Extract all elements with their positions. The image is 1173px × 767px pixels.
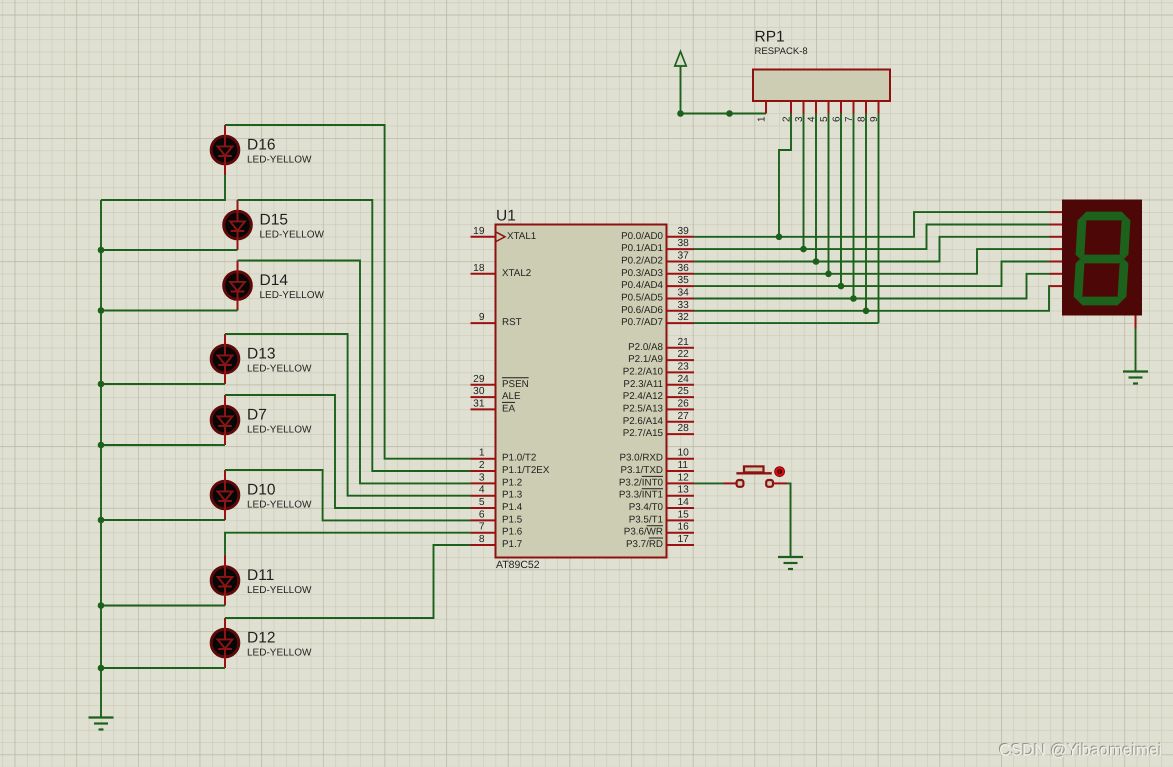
svg-text:P3.1/TXD: P3.1/TXD <box>621 465 663 476</box>
display pin 5 <box>1050 261 1063 263</box>
wire RP1 pin 7 to node P0.5 <box>853 114 855 299</box>
svg-text:XTAL2: XTAL2 <box>502 268 531 279</box>
svg-text:26: 26 <box>678 398 690 409</box>
U1 pin 17 (P3.7/RD) <box>667 544 695 546</box>
svg-text:D13: D13 <box>247 346 275 363</box>
junction RP1 pin2/P0.0 <box>776 234 783 241</box>
svg-text:D10: D10 <box>247 482 276 499</box>
svg-text:15: 15 <box>678 509 690 520</box>
U1 pin 16 (P3.6/WR) <box>667 532 695 534</box>
junction D12/bus <box>98 665 105 672</box>
svg-text:25: 25 <box>678 386 690 397</box>
svg-text:P2.4/A12: P2.4/A12 <box>623 391 663 402</box>
svg-text:39: 39 <box>678 226 690 237</box>
U1 pin 7 (P1.6) <box>471 532 496 534</box>
junction D13/bus <box>98 381 105 388</box>
svg-text:P1.1/T2EX: P1.1/T2EX <box>502 465 550 476</box>
display segment E <box>1074 259 1085 301</box>
svg-text:P1.2: P1.2 <box>502 477 522 488</box>
junction D7/bus <box>98 442 105 449</box>
svg-text:P0.3/AD3: P0.3/AD3 <box>621 268 663 279</box>
junction RP1 pin8/P0.6 <box>863 308 870 315</box>
wire D12 cathode to bus <box>101 667 225 669</box>
svg-text:24: 24 <box>678 374 690 385</box>
wire D16 cathode to bus <box>101 175 225 200</box>
display pin 2 <box>1050 224 1063 226</box>
junction RP1 pin4/P0.2 <box>813 258 820 265</box>
wire RP1 pin 8 to node P0.6 <box>865 114 867 311</box>
svg-text:34: 34 <box>678 288 690 299</box>
svg-text:13: 13 <box>678 485 690 496</box>
button actuator (red) <box>775 467 785 477</box>
U1 pin 26 (P2.5/A13) <box>667 408 695 410</box>
svg-text:PSEN: PSEN <box>502 379 529 390</box>
U1 pin 35 (P0.4/AD4) <box>667 285 695 287</box>
svg-text:LED-YELLOW: LED-YELLOW <box>247 364 312 375</box>
display segment B <box>1120 216 1131 259</box>
U1 pin 18 (XTAL2) <box>471 273 496 275</box>
wire D13 anode to P1.3 <box>225 334 471 496</box>
LED D15 (LED-YELLOW) <box>224 200 252 250</box>
wire D10 cathode to bus <box>101 519 225 521</box>
svg-text:LED-YELLOW: LED-YELLOW <box>260 290 325 301</box>
display pin 7 <box>1050 285 1063 287</box>
LED D10 (LED-YELLOW) <box>211 470 239 520</box>
svg-text:1: 1 <box>757 116 768 122</box>
U1 pin 27 (P2.6/A14) <box>667 421 695 423</box>
svg-text:P3.6/WR: P3.6/WR <box>624 527 663 538</box>
U1 pin 22 (P2.1/A9) <box>667 359 695 361</box>
U1 pin 21 (P2.0/A8) <box>667 347 695 349</box>
svg-text:P1.0/T2: P1.0/T2 <box>502 453 536 464</box>
svg-text:9: 9 <box>479 312 485 323</box>
svg-text:P2.7/A15: P2.7/A15 <box>623 428 664 439</box>
U1 pin 15 (P3.5/T1) <box>667 519 695 521</box>
svg-text:10: 10 <box>678 448 690 459</box>
svg-text:32: 32 <box>678 312 690 323</box>
svg-text:P3.3/INT1: P3.3/INT1 <box>619 490 663 501</box>
svg-text:P3.0/RXD: P3.0/RXD <box>619 453 663 464</box>
U1 pin 34 (P0.5/AD5) <box>667 298 695 300</box>
svg-text:CSDN @Yibaomeimei: CSDN @Yibaomeimei <box>999 742 1162 760</box>
wire D14 anode to P1.2 <box>238 261 471 484</box>
op: IC U1 AT89C52 body <box>496 225 667 558</box>
LED D13 (LED-YELLOW) <box>211 334 239 384</box>
svg-text:LED-YELLOW: LED-YELLOW <box>247 585 312 596</box>
U1 pin 9 (RST) <box>471 322 496 324</box>
wire P0.1 to display pin 2 <box>694 225 1050 250</box>
U1 pin 30 (ALE) <box>471 396 496 398</box>
svg-text:P2.0/A8: P2.0/A8 <box>628 342 663 353</box>
wire RP1 pin 6 to node P0.4 <box>840 114 842 287</box>
display pin 6 <box>1050 273 1063 275</box>
svg-text:EA: EA <box>502 403 516 414</box>
U1 pin 11 (P3.1/TXD) <box>667 470 695 472</box>
U1 pin 6 (P1.5) <box>471 519 496 521</box>
U1 pin 28 (P2.7/A15) <box>667 433 695 435</box>
U1 pin 24 (P2.3/A11) <box>667 384 695 386</box>
RP1 pin 4 <box>815 101 817 114</box>
RP1 pin 1 <box>765 101 767 114</box>
svg-text:P0.1/AD1: P0.1/AD1 <box>621 243 663 254</box>
display segment G <box>1080 255 1124 264</box>
U1 pin 1 (P1.0/T2) <box>471 458 496 460</box>
svg-text:P1.7: P1.7 <box>502 539 522 550</box>
U1 pin 36 (P0.3/AD3) <box>667 273 695 275</box>
svg-text:18: 18 <box>473 263 485 274</box>
svg-text:6: 6 <box>479 509 485 520</box>
U1 pin 29 (PSEN) <box>471 384 496 386</box>
wire P0.3 to display pin 4 <box>694 249 1050 274</box>
power symbol VCC (arrow) <box>675 52 686 67</box>
wire P0.4 to display pin 5 <box>694 262 1050 287</box>
wire P3.2 to button <box>694 482 724 484</box>
svg-text:D12: D12 <box>247 630 275 647</box>
svg-text:LED-YELLOW: LED-YELLOW <box>247 500 312 511</box>
junction RP1 pin5/P0.3 <box>825 271 832 278</box>
LED D12 (LED-YELLOW) <box>211 618 239 668</box>
junction on VCC wire 2 <box>726 110 733 117</box>
svg-text:LED-YELLOW: LED-YELLOW <box>247 648 312 659</box>
push button terminals and cap <box>724 482 738 484</box>
wire D7 anode to P1.4 <box>225 395 471 508</box>
svg-text:P0.6/AD6: P0.6/AD6 <box>621 305 663 316</box>
U1 pin 31 (EA) <box>471 408 496 410</box>
svg-text:RST: RST <box>502 317 522 328</box>
svg-text:P2.6/A14: P2.6/A14 <box>623 416 664 427</box>
U1 pin 37 (P0.2/AD2) <box>667 261 695 263</box>
svg-text:D11: D11 <box>247 567 274 584</box>
svg-text:2: 2 <box>479 460 485 471</box>
wire P0.5 to display pin 6 <box>694 274 1050 299</box>
svg-text:5: 5 <box>479 497 485 508</box>
svg-text:28: 28 <box>678 423 690 434</box>
RP1 pin 6 <box>840 101 842 114</box>
svg-text:RP1: RP1 <box>755 29 785 46</box>
junction D10/bus <box>98 517 105 524</box>
svg-text:29: 29 <box>473 374 485 385</box>
svg-text:38: 38 <box>678 238 690 249</box>
wire display common to ground <box>1135 329 1137 372</box>
RP1 pin 3 <box>803 101 805 114</box>
svg-text:P2.5/A13: P2.5/A13 <box>623 403 664 414</box>
svg-text:P3.4/T0: P3.4/T0 <box>629 502 664 513</box>
svg-text:33: 33 <box>678 300 690 311</box>
svg-text:P3.2/INT0: P3.2/INT0 <box>619 477 664 488</box>
wire D13 cathode to bus <box>101 383 225 385</box>
wire D11 anode to P1.6 <box>225 533 471 556</box>
svg-text:AT89C52: AT89C52 <box>496 559 540 571</box>
svg-text:LED-YELLOW: LED-YELLOW <box>247 425 312 436</box>
svg-text:P1.6: P1.6 <box>502 527 523 538</box>
U1 pin 12 (P3.2/INT0) <box>667 482 695 484</box>
svg-text:RESPACK-8: RESPACK-8 <box>755 46 808 57</box>
LED D14 (LED-YELLOW) <box>224 261 252 311</box>
junction D15/bus <box>98 247 105 254</box>
wire D11 cathode to bus <box>101 605 225 607</box>
wire D15 anode to P1.1 <box>238 200 471 471</box>
svg-text:P1.5: P1.5 <box>502 514 523 525</box>
svg-text:16: 16 <box>678 522 690 533</box>
wire RP1 pin 4 to node P0.2 <box>815 114 817 262</box>
svg-text:8: 8 <box>479 534 485 545</box>
resistor pack RP1 body <box>753 70 890 102</box>
LED D11 (LED-YELLOW) <box>211 556 239 606</box>
svg-text:27: 27 <box>678 411 690 422</box>
svg-text:17: 17 <box>678 534 690 545</box>
display segment F <box>1076 216 1087 259</box>
wire RP1 pin 3 to node P0.1 <box>803 114 805 250</box>
7-segment display body <box>1062 200 1142 316</box>
wire cathode bus to ground <box>100 200 102 718</box>
wire P0.6 to display pin 7 <box>694 286 1050 311</box>
svg-text:12: 12 <box>678 472 690 483</box>
display pin 3 <box>1050 236 1063 238</box>
svg-text:P0.0/AD0: P0.0/AD0 <box>621 231 663 242</box>
svg-text:3: 3 <box>479 472 485 483</box>
wire D16 anode to P1.0 <box>225 125 471 459</box>
svg-text:36: 36 <box>678 263 690 274</box>
display common pin <box>1135 316 1137 329</box>
svg-text:23: 23 <box>678 361 690 372</box>
svg-text:P2.2/A10: P2.2/A10 <box>623 366 664 377</box>
RP1 pin 8 <box>865 101 867 114</box>
wire D10 anode to P1.5 <box>225 470 471 520</box>
junction D14/bus <box>98 307 105 314</box>
U1 pin 33 (P0.6/AD6) <box>667 310 695 312</box>
U1 pin 2 (P1.1/T2EX) <box>471 470 496 472</box>
wire P0.2 to display pin 3 <box>694 237 1050 262</box>
junction RP1 pin3/P0.1 <box>800 246 807 253</box>
svg-text:P1.4: P1.4 <box>502 502 523 513</box>
svg-text:LED-YELLOW: LED-YELLOW <box>260 230 325 241</box>
junction D11/bus <box>98 602 105 609</box>
svg-text:U1: U1 <box>496 208 516 225</box>
wire RP1 pin 2 to node P0.0 <box>779 114 791 237</box>
svg-text:P3.5/T1: P3.5/T1 <box>629 514 663 525</box>
svg-text:D14: D14 <box>260 272 289 289</box>
svg-text:21: 21 <box>678 337 690 348</box>
svg-text:P2.3/A11: P2.3/A11 <box>623 379 663 390</box>
RP1 pin 7 <box>853 101 855 114</box>
svg-text:D7: D7 <box>247 407 267 424</box>
svg-text:D15: D15 <box>260 212 288 229</box>
svg-text:19: 19 <box>473 226 485 237</box>
wire D14 cathode to bus <box>101 310 238 312</box>
svg-text:P0.5/AD5: P0.5/AD5 <box>621 293 663 304</box>
U1 pin 14 (P3.4/T0) <box>667 507 695 509</box>
U1 pin 10 (P3.0/RXD) <box>667 458 695 460</box>
svg-text:22: 22 <box>678 349 690 360</box>
wire button to ground <box>787 483 791 557</box>
U1 pin 5 (P1.4) <box>471 507 496 509</box>
RP1 pin 9 <box>878 101 880 114</box>
svg-text:1: 1 <box>479 448 485 459</box>
wire D15 cathode to bus <box>101 249 238 251</box>
svg-text:30: 30 <box>473 386 485 397</box>
U1 pin 32 (P0.7/AD7) <box>667 322 695 324</box>
U1 pin 4 (P1.3) <box>471 495 496 497</box>
wire D7 cathode to bus <box>101 444 225 446</box>
wire D12 anode to P1.7 <box>225 545 471 618</box>
U1 pin 39 (P0.0/AD0) <box>667 236 695 238</box>
U1 pin 3 (P1.2) <box>471 482 496 484</box>
svg-text:ALE: ALE <box>502 391 521 402</box>
ground (display) <box>1123 370 1148 372</box>
svg-text:P1.3: P1.3 <box>502 490 523 501</box>
junction RP1 pin7/P0.5 <box>850 295 857 302</box>
svg-text:P0.7/AD7: P0.7/AD7 <box>621 317 663 328</box>
svg-text:35: 35 <box>678 275 690 286</box>
svg-text:37: 37 <box>678 251 690 262</box>
RP1 pin 5 <box>828 101 830 114</box>
svg-text:P0.2/AD2: P0.2/AD2 <box>621 256 663 267</box>
U1 pin 19 (XTAL1) <box>471 236 496 238</box>
U1 pin 13 (P3.3/INT1) <box>667 495 695 497</box>
svg-text:4: 4 <box>479 485 485 496</box>
svg-text:P2.1/A9: P2.1/A9 <box>628 354 663 365</box>
LED D7 (LED-YELLOW) <box>211 395 239 445</box>
wire P0.7 to RP1 pin 9 <box>694 322 879 324</box>
junction RP1 pin6/P0.4 <box>838 283 845 290</box>
U1 pin 38 (P0.1/AD1) <box>667 248 695 250</box>
wire P0.0 to display pin 1 <box>694 212 1050 237</box>
wire RP1 pin 5 to node P0.3 <box>828 114 830 274</box>
ground (LED bus) <box>89 716 114 718</box>
display pin 4 <box>1050 248 1063 250</box>
RP1 pin 2 <box>790 101 792 114</box>
U1 pin 8 (P1.7) <box>471 544 496 546</box>
svg-text:LED-YELLOW: LED-YELLOW <box>247 155 312 166</box>
svg-text:14: 14 <box>678 497 690 508</box>
wire VCC to RP1 pin 1 <box>681 66 767 114</box>
wire RP1 pin 9 to node P0.7 <box>878 114 880 324</box>
LED D16 (LED-YELLOW) <box>211 125 239 175</box>
display segment D <box>1078 297 1122 306</box>
svg-text:D16: D16 <box>247 137 275 154</box>
junction on VCC wire <box>677 110 684 117</box>
ground (button) <box>778 556 803 558</box>
svg-text:P3.7/RD: P3.7/RD <box>626 539 663 550</box>
display pin 1 <box>1050 211 1063 213</box>
svg-text:7: 7 <box>479 522 485 533</box>
svg-text:P0.4/AD4: P0.4/AD4 <box>621 280 663 291</box>
U1 pin 25 (P2.4/A12) <box>667 396 695 398</box>
display segment A <box>1082 212 1126 221</box>
display segment C <box>1118 259 1129 301</box>
U1 XTAL1 clock input marker <box>496 232 506 242</box>
U1 pin 23 (P2.2/A10) <box>667 371 695 373</box>
svg-text:XTAL1: XTAL1 <box>507 231 536 242</box>
svg-text:31: 31 <box>473 398 485 409</box>
svg-text:11: 11 <box>678 460 689 471</box>
